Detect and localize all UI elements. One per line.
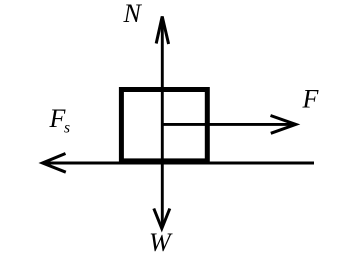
svg-text:W: W: [149, 228, 173, 257]
svg-text:s: s: [64, 120, 70, 137]
svg-text:N: N: [123, 0, 143, 28]
svg-text:F: F: [302, 85, 320, 114]
